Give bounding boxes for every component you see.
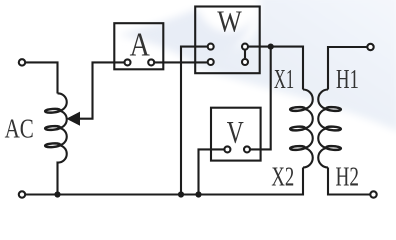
svg-text:H2: H2 [336,162,360,192]
svg-text:A: A [130,27,151,64]
svg-text:V: V [227,114,244,150]
svg-text:W: W [217,4,242,39]
svg-text:AC: AC [5,114,34,144]
svg-text:X1: X1 [274,64,294,94]
svg-text:X2: X2 [271,162,294,192]
svg-text:H1: H1 [336,64,359,94]
